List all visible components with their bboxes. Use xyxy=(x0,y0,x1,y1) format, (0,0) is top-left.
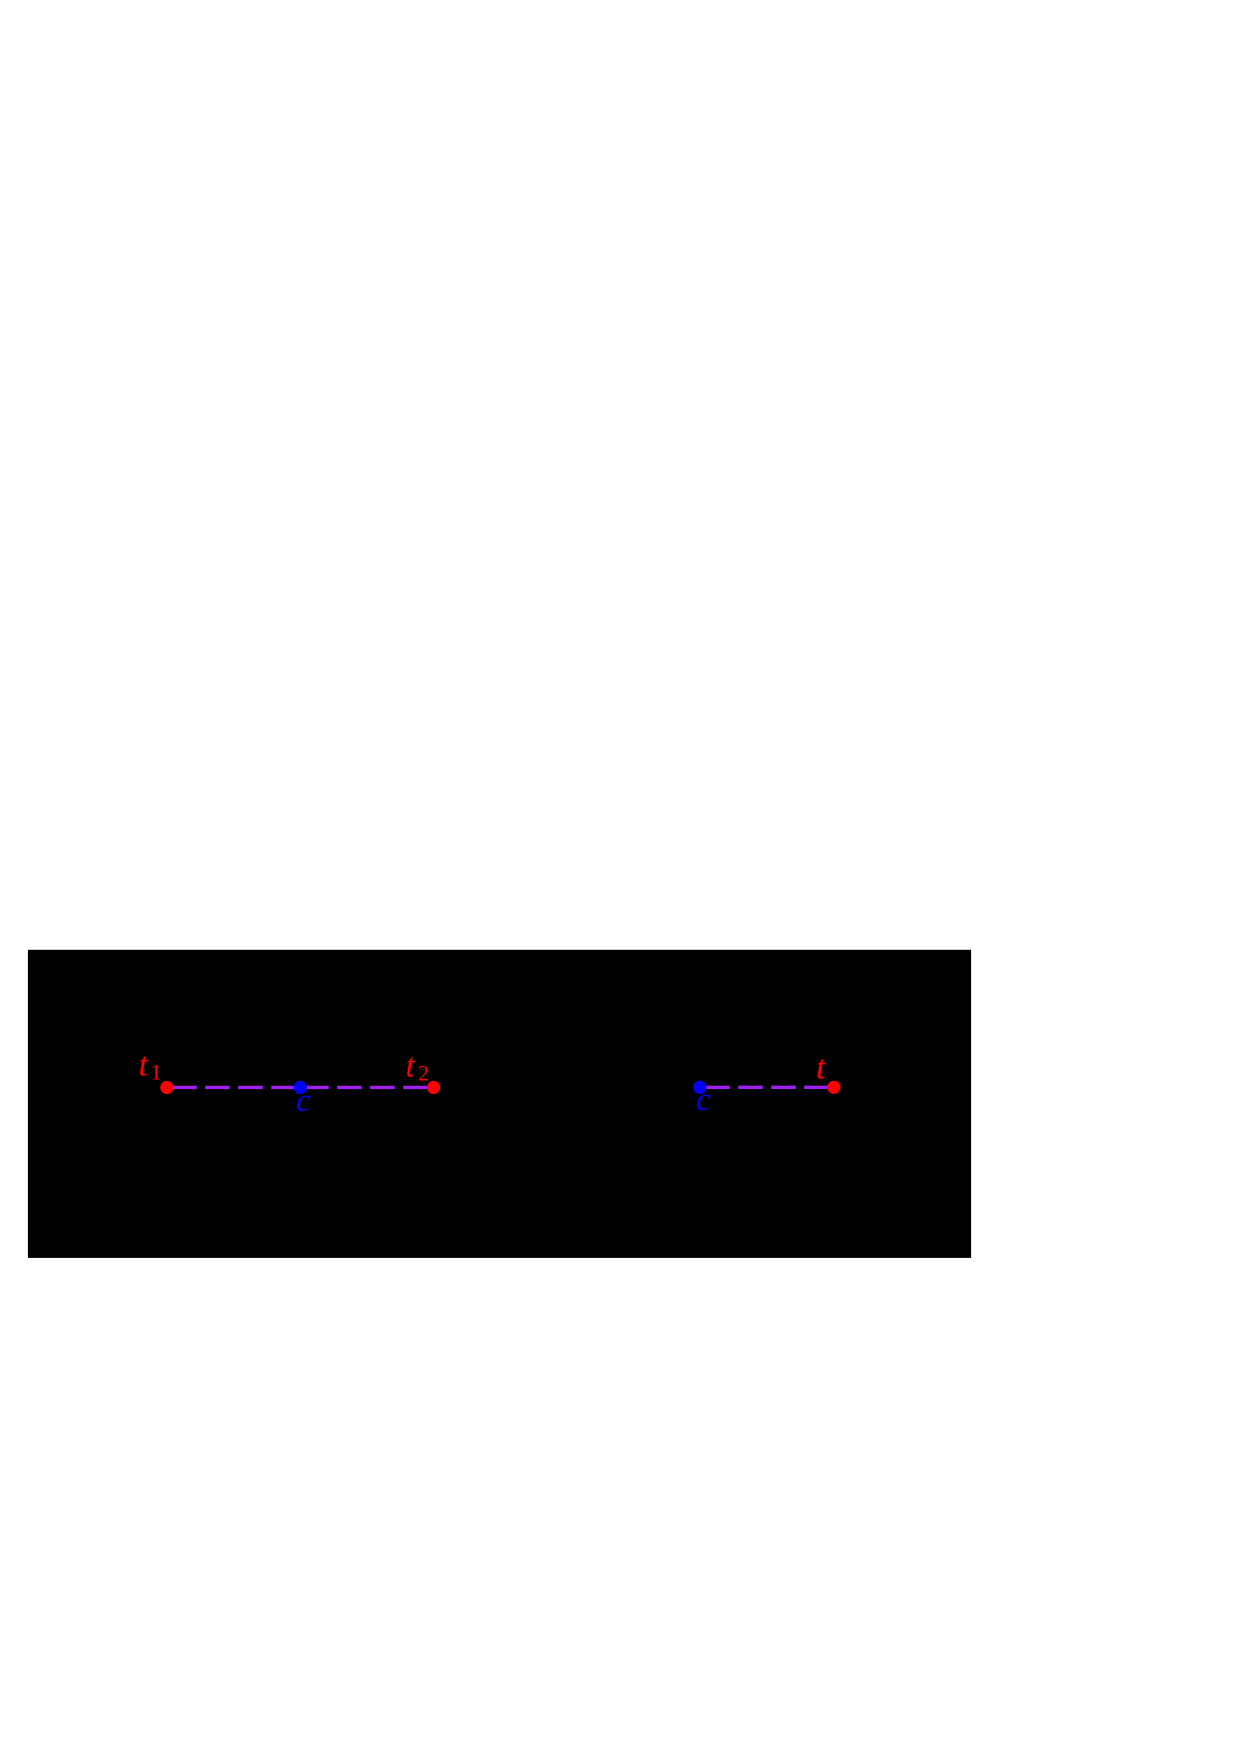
node t (red point, right figure) xyxy=(827,1081,840,1094)
figure background xyxy=(28,950,971,1258)
wire: dashed segment c-t (right) xyxy=(705,1086,834,1089)
node t2 (red point) xyxy=(427,1081,440,1094)
svg-text:c: c xyxy=(296,1083,311,1119)
svg-text:t: t xyxy=(816,1050,827,1087)
node c (blue point, left figure) xyxy=(294,1081,307,1094)
node t1 (red point) xyxy=(160,1081,173,1094)
node c (blue point, right figure) xyxy=(693,1081,706,1094)
wire: dashed segment t1-t2 xyxy=(172,1086,433,1089)
svg-text:c: c xyxy=(696,1082,711,1118)
